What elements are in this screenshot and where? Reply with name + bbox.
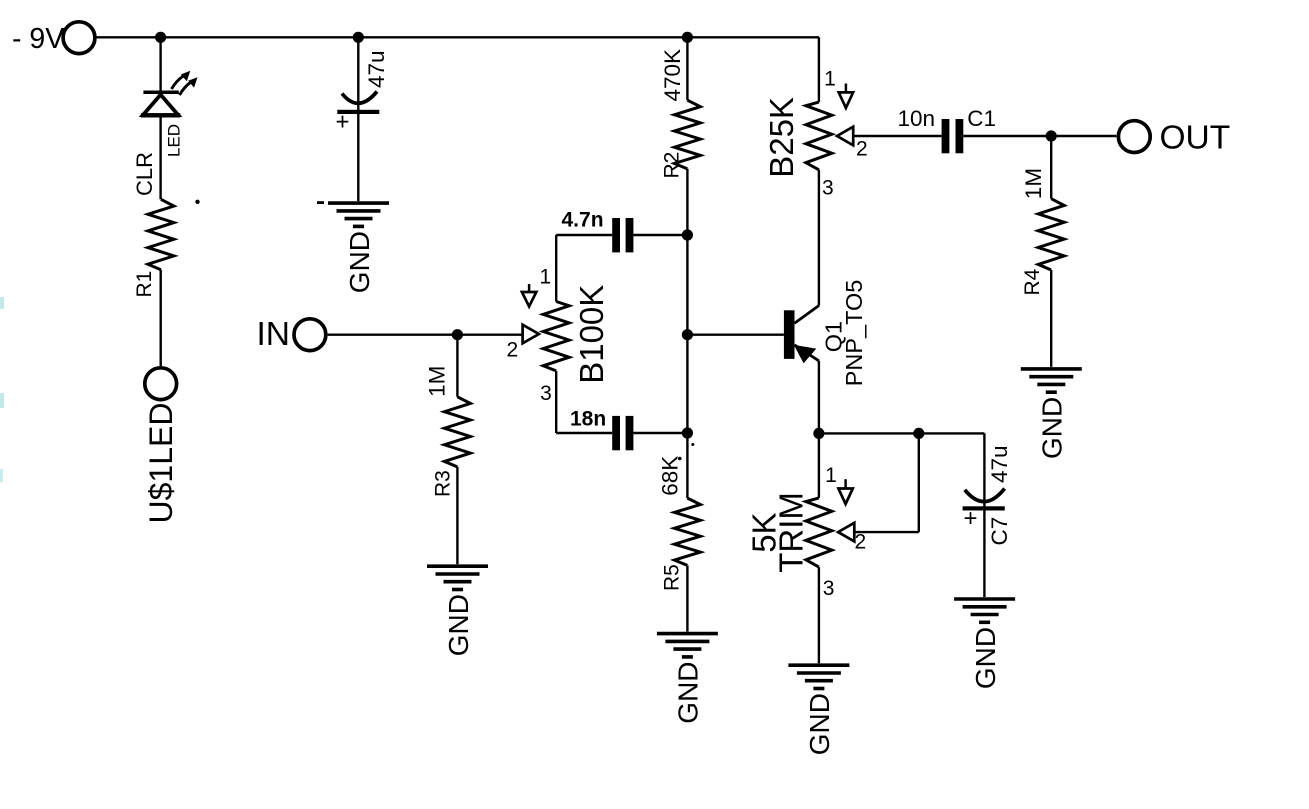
svg-text:U$1LED: U$1LED xyxy=(143,403,179,524)
wire IN node to R3 xyxy=(456,335,458,397)
node junction top-R2 xyxy=(682,32,693,43)
wire 4.7n to node xyxy=(633,234,687,236)
svg-text:GND: GND xyxy=(1037,397,1068,459)
wire base node to Q1 xyxy=(687,334,784,336)
wire collector to B25K xyxy=(818,170,820,306)
svg-text:+: + xyxy=(964,505,978,532)
node junction 18n-R5 xyxy=(682,427,693,438)
power terminal -9V xyxy=(63,22,95,54)
svg-text:68K: 68K xyxy=(658,456,683,496)
pot TRIM arrow xyxy=(844,479,847,488)
ground GND3 xyxy=(657,632,718,636)
wire wiper to C1 xyxy=(853,135,941,137)
svg-text:R3: R3 xyxy=(432,470,455,497)
capacitor 18n xyxy=(612,416,620,450)
wire R3 to GND xyxy=(456,467,458,564)
capacitor 4.7n xyxy=(612,218,620,252)
wire -9V to LED xyxy=(159,37,161,92)
svg-text:GND: GND xyxy=(970,627,1001,689)
wire R2 to base rail xyxy=(686,169,688,498)
svg-text:2: 2 xyxy=(856,138,868,161)
resistor R5 68K xyxy=(674,498,700,565)
ground GND4 xyxy=(1021,367,1082,371)
svg-text:47u: 47u xyxy=(364,50,389,88)
wire emitter rail xyxy=(819,432,985,434)
wire R4 to GND xyxy=(1050,270,1052,367)
capacitor C7 47u electrolytic xyxy=(965,489,1005,502)
svg-text:C1: C1 xyxy=(967,106,996,131)
resistor R1 CLR xyxy=(148,199,174,269)
svg-text:R5: R5 xyxy=(661,564,684,591)
wire LED to R1 xyxy=(159,115,161,199)
stray dot R1 xyxy=(195,200,199,204)
potentiometer B100K xyxy=(543,302,569,371)
wire emitter down xyxy=(818,361,820,434)
ground GND1 xyxy=(328,201,389,205)
stray mark xyxy=(317,201,324,204)
svg-text:IN: IN xyxy=(257,316,291,353)
wire C1 to OUT xyxy=(963,135,1116,137)
svg-text:OUT: OUT xyxy=(1160,120,1231,157)
potentiometer 5K TRIM xyxy=(806,498,832,567)
ground GND2 xyxy=(427,564,488,568)
wire node to R4 xyxy=(1050,136,1052,199)
resistor R4 1M xyxy=(1038,199,1064,270)
svg-text:GND: GND xyxy=(344,231,375,293)
svg-text:GND: GND xyxy=(443,594,474,656)
svg-text:LED: LED xyxy=(164,124,183,157)
svg-text:B100K: B100K xyxy=(573,285,610,384)
svg-text:GND: GND xyxy=(673,661,704,723)
pot B25K wiper pin 2 xyxy=(837,127,853,146)
svg-text:1M: 1M xyxy=(425,366,450,397)
svg-text:B25K: B25K xyxy=(763,97,800,178)
diode U$1 LED xyxy=(143,90,178,94)
svg-text:- 9V: - 9V xyxy=(12,23,64,55)
svg-text:R4: R4 xyxy=(1021,268,1044,295)
transistor Q1 PNP_TO5 xyxy=(784,310,795,359)
potentiometer B25K xyxy=(806,102,832,170)
stray dot 68K xyxy=(678,457,682,461)
node junction top-C47u xyxy=(353,32,364,43)
svg-text:GND: GND xyxy=(804,693,835,755)
svg-text:3: 3 xyxy=(540,382,552,405)
capacitor 47u electrolytic xyxy=(342,92,377,104)
wire top rail -9V xyxy=(96,36,819,38)
node junction base xyxy=(682,329,693,340)
svg-text:1: 1 xyxy=(824,68,836,91)
wire B100K pin1 up xyxy=(555,235,557,302)
pot B100K wiper pin 2 xyxy=(523,325,539,344)
wire IN to pot wiper xyxy=(328,334,523,336)
node junction trim-wiper xyxy=(913,428,924,439)
svg-text:C7: C7 xyxy=(987,517,1012,546)
svg-text:47u: 47u xyxy=(987,445,1012,483)
svg-text:1: 1 xyxy=(539,266,551,289)
svg-text:3: 3 xyxy=(823,577,835,600)
ground GND5 xyxy=(788,663,849,667)
svg-text:1: 1 xyxy=(825,464,837,487)
wire C 47u to GND xyxy=(357,114,359,201)
pot B100K arrow xyxy=(528,284,531,292)
wire TRIM pin3 to GND xyxy=(818,567,820,663)
stray dot node xyxy=(691,443,694,446)
terminal OUT xyxy=(1118,121,1150,153)
svg-text:+: + xyxy=(336,109,350,136)
node junction OUT-R4 xyxy=(1046,130,1057,141)
svg-text:R2: R2 xyxy=(660,152,683,179)
svg-text:R1: R1 xyxy=(133,271,156,298)
svg-text:470K: 470K xyxy=(660,49,685,102)
wire B100K pin3 down xyxy=(555,371,557,433)
node junction emitter xyxy=(813,428,824,439)
pot TRIM wiper pin 2 xyxy=(838,523,854,542)
svg-text:10n: 10n xyxy=(898,106,936,131)
wire R1 to pad xyxy=(159,270,161,366)
svg-text:3: 3 xyxy=(822,176,834,199)
svg-text:4.7n: 4.7n xyxy=(562,209,604,232)
wire R5 to GND xyxy=(686,565,688,631)
node junction 4.7n xyxy=(682,229,693,240)
svg-text:2: 2 xyxy=(854,531,866,554)
terminal U$1LED pad xyxy=(145,368,177,400)
resistor R3 1M xyxy=(444,397,470,467)
svg-text:PNP_TO5: PNP_TO5 xyxy=(841,280,867,387)
wire -9V to C 47u xyxy=(357,37,359,110)
wire emitter to TRIM xyxy=(818,433,820,498)
svg-text:1M: 1M xyxy=(1021,168,1046,199)
svg-text:CLR: CLR xyxy=(132,152,157,196)
wire top to R2 xyxy=(686,37,688,100)
pot B25K arrow xyxy=(845,84,848,93)
wire C7 to GND xyxy=(983,511,985,598)
svg-text:2: 2 xyxy=(507,339,519,362)
node junction top-LED xyxy=(155,32,166,43)
node junction IN-R3 xyxy=(452,329,463,340)
ground GND6 xyxy=(954,597,1015,601)
wire TRIM wiper feedback xyxy=(854,531,919,533)
wire 18n to node xyxy=(633,432,687,434)
scan artifact marks xyxy=(0,297,4,309)
svg-text:18n: 18n xyxy=(570,408,606,431)
terminal IN xyxy=(294,319,326,351)
capacitor C1 10n xyxy=(942,119,950,153)
resistor R2 470K xyxy=(674,100,700,169)
svg-text:TRIM: TRIM xyxy=(773,492,810,573)
wire rail to C7 xyxy=(983,433,985,508)
